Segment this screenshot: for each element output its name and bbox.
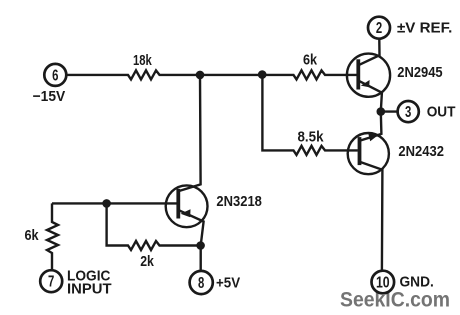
svg-text:2k: 2k bbox=[140, 253, 154, 270]
svg-text:7: 7 bbox=[48, 274, 54, 291]
svg-text:18k: 18k bbox=[133, 52, 152, 69]
svg-text:−15V: −15V bbox=[33, 88, 66, 105]
svg-text:6k: 6k bbox=[303, 51, 318, 68]
svg-text:2N2945: 2N2945 bbox=[397, 64, 442, 81]
svg-text:8: 8 bbox=[198, 275, 205, 292]
svg-text:2N2432: 2N2432 bbox=[398, 143, 444, 160]
svg-text:2: 2 bbox=[376, 20, 382, 37]
svg-text:INPUT: INPUT bbox=[67, 281, 112, 298]
svg-text:GND.: GND. bbox=[400, 274, 434, 291]
svg-text:±V REF.: ±V REF. bbox=[397, 20, 452, 37]
svg-text:+5V: +5V bbox=[216, 274, 240, 291]
svg-text:OUT: OUT bbox=[427, 103, 456, 120]
svg-text:10: 10 bbox=[376, 275, 390, 292]
svg-text:6: 6 bbox=[52, 67, 59, 84]
svg-text:2N3218: 2N3218 bbox=[216, 193, 262, 210]
svg-text:6k: 6k bbox=[25, 227, 40, 244]
svg-text:3: 3 bbox=[405, 104, 412, 121]
svg-text:SeekIC.com: SeekIC.com bbox=[340, 289, 450, 312]
svg-text:8.5k: 8.5k bbox=[298, 128, 325, 145]
